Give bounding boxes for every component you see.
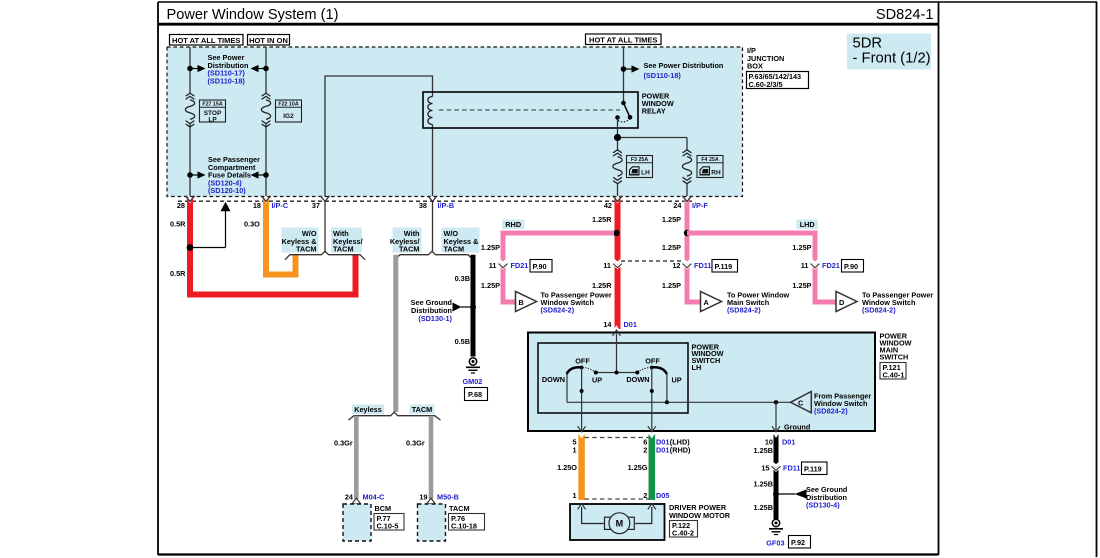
svg-text:1.25P: 1.25P — [481, 243, 500, 252]
ref box P.68 — [465, 388, 488, 401]
inner switch detail box — [538, 343, 688, 413]
wire 1.25P RHD branch — [503, 233, 614, 302]
wire: feed to power window relay — [623, 47, 625, 103]
option label: W/O Keyless & TACM (pin38 right) — [442, 228, 480, 254]
svg-text:0.3B: 0.3B — [455, 274, 470, 283]
wire: tap from red wire up to connector (arrow) — [190, 247, 226, 249]
svg-text:1.25O: 1.25O — [557, 463, 577, 472]
wire: feed to fuse F22 (pin 18 branch) — [265, 47, 267, 94]
svg-text:FD21: FD21 — [822, 261, 840, 270]
svg-text:1.25B: 1.25B — [754, 446, 773, 455]
svg-text:TACM: TACM — [444, 245, 465, 254]
dashed connector line between 11 and 12 — [621, 260, 683, 262]
label: See Power Distribution (SD110-17)(SD110-18) — [208, 53, 249, 85]
wire 0.3B: black to ground GM02 — [471, 255, 476, 357]
svg-text:BOX: BOX — [747, 62, 763, 71]
svg-text:1.25G: 1.25G — [628, 463, 648, 472]
option bracket under pin 37 — [285, 251, 365, 260]
connector FD21 chevron on LHD pink — [811, 259, 820, 267]
svg-text:P.90: P.90 — [533, 262, 547, 271]
connector arrow into BCM — [352, 498, 361, 504]
wire 1.25P: pin 24 pink trunk — [687, 197, 701, 302]
svg-text:1: 1 — [573, 446, 577, 455]
svg-text:0.5R: 0.5R — [170, 269, 186, 278]
wire 1.25O: pin 5 to motor — [578, 434, 585, 500]
option label: W/O Keyless & TACM (pin37 left) — [282, 228, 319, 254]
triangle C from passenger window switch — [791, 392, 812, 413]
connector arrow into TACM — [427, 498, 436, 504]
wire 1.25B: pin 10 to ground GF03 — [774, 434, 779, 519]
svg-text:5DR: 5DR — [853, 36, 883, 52]
label: See Passenger Compartment Fuse Details (SD120-4)(SD120-10) — [208, 155, 260, 195]
svg-text:1.25P: 1.25P — [662, 215, 681, 224]
pin 5 exit arrow — [578, 426, 586, 432]
connector FD11 chevron on pink trunk — [683, 259, 692, 267]
node: ground distribution tap — [470, 304, 476, 310]
option bracket under pin 38 — [395, 251, 473, 260]
svg-text:FD11: FD11 — [783, 464, 800, 473]
label: POWER WINDOW SWITCH LH — [692, 342, 724, 372]
wire 1.25G: pin 6 to motor — [649, 434, 656, 500]
node on red wire — [187, 244, 194, 251]
triangle D to passenger power window switch — [836, 292, 857, 312]
wire: ground tap down to pin 10 — [775, 402, 777, 431]
svg-text:LH: LH — [641, 170, 650, 177]
wire 0.3Gr to BCM — [354, 416, 359, 499]
pin 18 connector arrow (top) — [262, 196, 271, 202]
svg-text:IG2: IG2 — [283, 113, 294, 120]
svg-text:F3 25A: F3 25A — [631, 157, 649, 163]
triangle B to passenger power window switch — [516, 292, 537, 312]
svg-text:LHD: LHD — [800, 220, 815, 229]
ground symbol GF03 — [769, 519, 783, 534]
right window switch (OFF/DOWN/UP) — [626, 356, 681, 431]
svg-text:0.3Gr: 0.3Gr — [334, 439, 353, 448]
svg-text:C: C — [798, 399, 804, 408]
fuse F22 label box: F22 10A IG2 — [276, 100, 302, 122]
power window main switch box — [528, 333, 875, 432]
svg-text:1.25B: 1.25B — [754, 480, 773, 489]
svg-text:1.25B: 1.25B — [754, 503, 773, 512]
svg-text:1.25R: 1.25R — [592, 281, 612, 290]
svg-text:WINDOW MOTOR: WINDOW MOTOR — [669, 511, 731, 520]
node: see power distribution tap (left wire) — [187, 65, 205, 72]
svg-text:RELAY: RELAY — [642, 106, 666, 115]
svg-text:18: 18 — [253, 201, 261, 210]
svg-text:FD11: FD11 — [694, 261, 711, 270]
svg-text:GM02: GM02 — [463, 377, 483, 386]
connector FD11 chevron on black wire — [772, 462, 781, 470]
svg-text:See Power Distribution: See Power Distribution — [644, 61, 724, 70]
svg-text:D01: D01 — [656, 446, 669, 455]
fuse F3 label box: F3 25A LH — [627, 156, 653, 178]
svg-text:I/P-B: I/P-B — [438, 201, 455, 210]
wire 1.25R: pin 42 red trunk — [615, 197, 621, 329]
wire: pin 37 to option bracket — [324, 202, 326, 251]
svg-text:38: 38 — [419, 201, 427, 210]
pin 42 connector arrow (top) — [613, 196, 622, 202]
power window relay box — [423, 92, 638, 128]
svg-text:1.25P: 1.25P — [662, 281, 681, 290]
svg-text:0.3Gr: 0.3Gr — [406, 439, 425, 448]
svg-text:Power Window System (1): Power Window System (1) — [167, 7, 339, 23]
wire: fuse F4 to pin 24 — [686, 184, 688, 197]
svg-text:I/P-C: I/P-C — [272, 201, 289, 210]
svg-text:1.25P: 1.25P — [481, 281, 500, 290]
svg-text:24: 24 — [345, 493, 354, 502]
motor entry arrows — [578, 504, 586, 510]
option label: TACM — [410, 405, 435, 415]
svg-text:12: 12 — [672, 261, 680, 270]
svg-text:UP: UP — [672, 376, 682, 385]
svg-text:HOT AT ALL TIMES: HOT AT ALL TIMES — [589, 35, 657, 44]
svg-text:GF03: GF03 — [766, 539, 784, 548]
wire: fuse F3 to pin 42 — [617, 184, 619, 197]
svg-text:1.25P: 1.25P — [662, 243, 681, 252]
svg-text:1.25R: 1.25R — [592, 215, 612, 224]
svg-text:Ground: Ground — [784, 422, 810, 431]
node: relay output — [614, 134, 621, 141]
ref box P.76 C.10-18 — [449, 514, 485, 531]
option label: With Keyless/TACM (pin38 left) — [390, 228, 422, 254]
svg-text:0.5R: 0.5R — [170, 220, 186, 229]
svg-text:2: 2 — [643, 446, 647, 455]
svg-text:SWITCH: SWITCH — [880, 353, 909, 362]
svg-text:BCM: BCM — [375, 504, 392, 513]
svg-text:RH: RH — [711, 170, 721, 177]
BCM connector dashed box — [343, 504, 371, 541]
svg-text:0.5B: 0.5B — [455, 337, 470, 346]
svg-text:1.25P: 1.25P — [792, 243, 811, 252]
svg-text:- Front (1/2): - Front (1/2) — [853, 51, 931, 67]
svg-text:M04-C: M04-C — [363, 493, 386, 502]
pin 28 connector arrow (top) — [186, 196, 195, 202]
svg-text:14: 14 — [603, 320, 612, 329]
pin 28 connector arrow — [186, 196, 195, 202]
wire: feed to fuse F27 (pin 28 branch) — [190, 47, 624, 196]
triangle A to power window main switch — [701, 292, 722, 312]
pin 42 connector arrow — [613, 196, 622, 202]
option label: With Keyless/TACM (pin37 right) — [331, 228, 363, 254]
svg-text:P.119: P.119 — [804, 464, 822, 473]
svg-text:28: 28 — [177, 201, 185, 210]
5DR Front label box — [847, 34, 931, 70]
HOT IN ON box — [248, 35, 290, 46]
svg-text:D: D — [839, 298, 844, 307]
svg-text:LP: LP — [208, 116, 217, 123]
wire 0.3O: pin 18 orange to pin37 W/O-option — [266, 197, 296, 275]
ref box P.92 — [789, 536, 811, 549]
svg-text:(SD110-18): (SD110-18) — [644, 71, 682, 80]
svg-text:11: 11 — [603, 261, 611, 270]
connector row dashed line under I/P box — [178, 200, 692, 202]
svg-text:11: 11 — [801, 261, 809, 270]
svg-text:P.92: P.92 — [791, 538, 805, 547]
fuse F4 label box: F4 25A RH — [697, 156, 723, 178]
svg-text:(SD120-10): (SD120-10) — [208, 186, 246, 195]
I/P junction box caption — [747, 46, 809, 89]
wire 0.3Gr to TACM — [429, 416, 434, 499]
svg-text:TACM: TACM — [399, 245, 420, 254]
node: LHD branch junction on pink — [684, 230, 690, 236]
pin 6 exit arrow — [648, 426, 656, 432]
svg-text:P.68: P.68 — [468, 390, 482, 399]
left window switch (OFF/DOWN/UP) — [542, 356, 602, 431]
svg-text:(SD110-18): (SD110-18) — [208, 76, 246, 85]
ref box P.121 C.40-1 — [880, 363, 906, 380]
node: see power distribution tap (right wire) — [251, 65, 269, 72]
svg-text:FD21: FD21 — [511, 261, 529, 270]
svg-text:D01: D01 — [782, 437, 795, 446]
connector FD21 chevron on RHD pink — [499, 259, 508, 267]
fuse F4 25A symbol — [682, 150, 691, 184]
pin 14 entry arrow — [613, 330, 621, 336]
svg-text:A: A — [704, 298, 710, 307]
svg-text:F27 15A: F27 15A — [202, 102, 222, 108]
svg-text:(SD130-1): (SD130-1) — [418, 314, 452, 323]
wire: relay coil bottom to pin38 — [432, 125, 434, 197]
svg-text:10: 10 — [765, 437, 773, 446]
motor M symbol — [582, 507, 652, 534]
wire 1.25P LHD branch — [687, 233, 836, 302]
label: See Power Distribution (SD110-18) at relay feed — [621, 61, 724, 80]
svg-text:B: B — [519, 298, 524, 307]
switch bottom rail to triangle C — [567, 401, 791, 403]
svg-text:2: 2 — [643, 491, 647, 500]
relay internal dashed link — [439, 109, 620, 111]
svg-text:37: 37 — [312, 201, 320, 210]
fuse F22 10A symbol — [261, 93, 270, 127]
svg-text:Keyless: Keyless — [354, 405, 382, 414]
svg-text:LH: LH — [692, 363, 702, 372]
svg-text:HOT IN ON: HOT IN ON — [249, 36, 288, 45]
svg-text:1.25P: 1.25P — [792, 281, 811, 290]
wire: relay output junction — [618, 118, 688, 151]
I/P junction box area (dashed light blue) — [167, 47, 743, 197]
svg-text:UP: UP — [592, 376, 602, 385]
svg-text:(SD130-4): (SD130-4) — [806, 501, 840, 510]
svg-text:(SD824-2): (SD824-2) — [541, 305, 575, 314]
HOT AT ALL TIMES box (right) — [586, 34, 662, 45]
svg-text:F4 25A: F4 25A — [701, 157, 719, 163]
pin 10 exit arrow — [772, 426, 780, 432]
svg-text:TACM: TACM — [449, 504, 470, 513]
node: RHD branch junction on red — [613, 230, 619, 236]
svg-text:DOWN: DOWN — [626, 375, 649, 384]
fuse F3 25A symbol — [613, 150, 622, 184]
switch common rail — [596, 372, 638, 374]
wire: pin 38 to option bracket — [432, 202, 434, 251]
svg-text:C.10-18: C.10-18 — [451, 522, 477, 531]
label: POWER WINDOW MAIN SWITCH — [880, 332, 912, 362]
label LHD — [797, 220, 819, 230]
svg-text:M: M — [616, 519, 624, 529]
wire: gray With-Keyless/TACM trunk — [393, 255, 398, 412]
wire: pin14 into switch — [616, 334, 618, 373]
svg-text:42: 42 — [604, 201, 612, 210]
svg-text:TACM: TACM — [296, 245, 317, 254]
pin 24 connector arrow — [683, 196, 692, 202]
relay switch contacts — [615, 101, 632, 122]
svg-text:0.3O: 0.3O — [244, 220, 260, 229]
svg-text:11: 11 — [489, 261, 497, 270]
svg-text:OFF: OFF — [645, 356, 660, 365]
pin 18 connector arrow — [262, 196, 271, 202]
pin 24 connector arrow (top) — [683, 196, 692, 202]
svg-text:F22 10A: F22 10A — [278, 102, 298, 108]
svg-text:P.90: P.90 — [844, 262, 858, 271]
option bracket Keyless/TACM split — [349, 412, 441, 420]
fuse F27 label box: F27 15A STOP LP — [200, 100, 226, 123]
svg-text:TACM: TACM — [333, 245, 354, 254]
ref box P.122 C.40-2 — [670, 521, 698, 538]
svg-text:DOWN: DOWN — [542, 375, 565, 384]
HOT AT ALL TIMES box (left) — [170, 35, 244, 46]
svg-text:(SD824-2): (SD824-2) — [727, 305, 761, 314]
svg-text:C.40-1: C.40-1 — [883, 371, 905, 380]
svg-text:SD824-1: SD824-1 — [876, 7, 934, 23]
svg-text:M50-B: M50-B — [437, 493, 459, 502]
node: see passenger compartment tap (right wire) — [251, 171, 269, 178]
node: ground tap in switch — [774, 400, 778, 404]
relay coil — [428, 97, 433, 125]
svg-text:(SD824-2): (SD824-2) — [862, 305, 896, 314]
svg-text:P.119: P.119 — [715, 262, 733, 271]
svg-text:(SD824-2): (SD824-2) — [814, 406, 848, 415]
svg-text:D01: D01 — [624, 320, 637, 329]
svg-text:D05: D05 — [656, 491, 669, 500]
label RHD — [502, 220, 525, 230]
ground symbol GM02 — [466, 358, 480, 373]
node: see passenger compartment tap (left wire) — [187, 171, 205, 178]
in-line connector dashes pins 5-6 — [585, 437, 650, 439]
driver power window motor box — [570, 504, 665, 540]
svg-text:HOT AT ALL TIMES: HOT AT ALL TIMES — [172, 36, 240, 45]
fuse F27 15A symbol — [185, 93, 194, 127]
wire 0.5R: pin 28 red to pin37 With-option — [190, 197, 356, 295]
svg-text:C.40-2: C.40-2 — [672, 529, 694, 538]
TACM connector dashed box — [418, 504, 446, 541]
svg-text:I/P-F: I/P-F — [692, 201, 708, 210]
node: ground distribution tap — [773, 491, 779, 497]
pin 38 connector arrow — [428, 196, 437, 202]
svg-text:C.60-2/3/5: C.60-2/3/5 — [749, 80, 783, 89]
connector chevron 11 on red trunk — [613, 259, 622, 267]
ref box P.77 C.10-5 — [374, 514, 404, 531]
svg-text:19: 19 — [419, 493, 427, 502]
svg-text:(RHD): (RHD) — [670, 446, 691, 455]
svg-text:OFF: OFF — [575, 356, 590, 365]
svg-text:15: 15 — [761, 464, 769, 473]
pin 37 connector arrow — [321, 196, 330, 202]
svg-text:C.10-5: C.10-5 — [377, 522, 399, 531]
option label: Keyless — [352, 405, 384, 415]
label: POWER WINDOW RELAY — [642, 91, 674, 115]
svg-text:RHD: RHD — [505, 220, 521, 229]
svg-text:24: 24 — [673, 201, 682, 210]
svg-text:1: 1 — [573, 491, 577, 500]
svg-text:TACM: TACM — [412, 405, 433, 414]
wire: pin37 to relay coil top — [325, 76, 433, 196]
